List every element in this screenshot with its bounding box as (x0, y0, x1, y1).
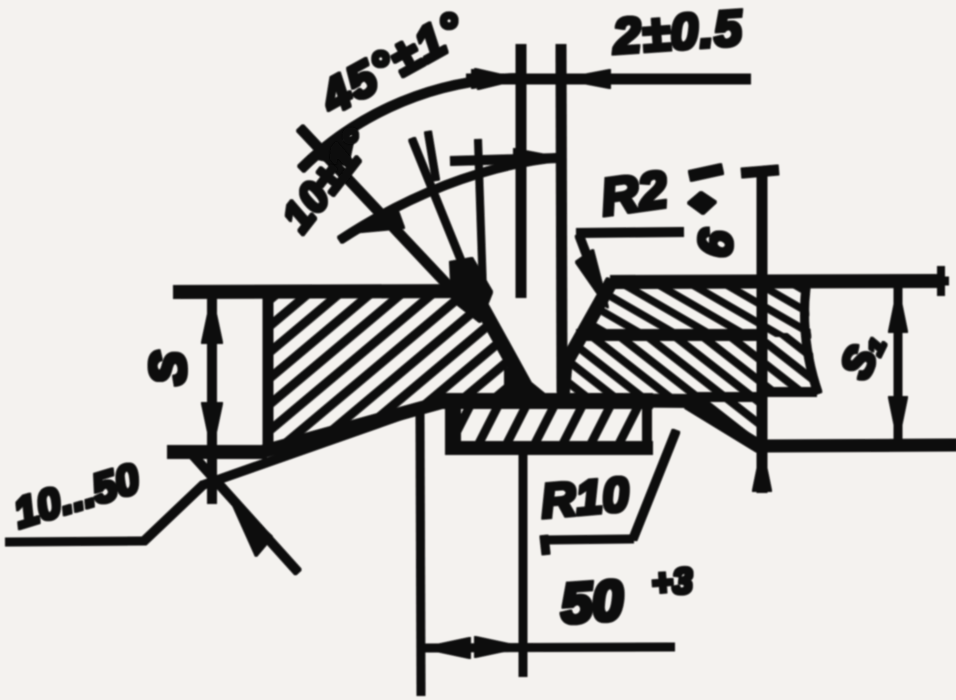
R2 leader arrowhead (576, 250, 608, 308)
svg-text:10...50: 10...50 (8, 454, 145, 537)
svg-text:+3: +3 (650, 560, 694, 604)
ext line x=561 for gap (561, 45, 562, 391)
S1 bottom arrow (889, 397, 907, 441)
R2 underline (577, 232, 683, 233)
50 left arrow (423, 638, 470, 658)
right plate hatch bottom short line (762, 388, 816, 396)
ext line x=421 bottom (420, 410, 421, 695)
svg-text:9: 9 (687, 225, 743, 258)
left plate hatch (261, 289, 542, 452)
left plate bottom slant to root (261, 400, 450, 452)
left plate bottom edge (168, 446, 266, 458)
S1 top ext tick (920, 278, 948, 285)
S1 top arrow (889, 288, 907, 332)
10deg arc (340, 157, 562, 240)
right plate bottom near root (563, 400, 693, 401)
right plate hatch lower band (563, 334, 816, 443)
right plate hatch break curve (805, 287, 819, 393)
arrow left into x=561 (563, 70, 610, 88)
right plate top edge (611, 281, 943, 282)
dim line 50+3 (424, 647, 674, 648)
backing strip hatch (452, 402, 648, 446)
10...50 leader horizontal (6, 541, 145, 542)
45deg leg segment (300, 128, 458, 296)
svg-text:S₁: S₁ (830, 325, 894, 387)
45deg arc (301, 78, 521, 169)
ext line x=521 for gap (517, 45, 526, 297)
9 ext top tick (742, 170, 778, 173)
root level line above slant (690, 393, 757, 401)
9 ext line x=762 (758, 172, 767, 492)
50 right arrow (475, 637, 522, 657)
10 arc left arrowhead (350, 206, 404, 233)
R2 tolerance diamond (688, 192, 716, 214)
left root corner fill (505, 368, 546, 400)
R10 underline (543, 539, 633, 540)
right plate hatch (581, 283, 810, 336)
ext line x=523 bottom (520, 453, 527, 676)
bevel corner blob (450, 258, 492, 322)
R10 leader (633, 431, 676, 539)
svg-text:S: S (140, 351, 196, 384)
backing strip left edge (446, 401, 460, 447)
10...50 long slant to root (203, 400, 445, 485)
crossing arrow line (190, 452, 298, 572)
S1 dim line x=898 (895, 285, 902, 443)
backing strip bottom edge (446, 442, 652, 454)
crossing arrowhead (230, 498, 272, 556)
45 arc left arrowhead (308, 137, 354, 165)
right plate internal split line (577, 330, 762, 340)
10 arc right arrowhead with shaft (451, 158, 560, 161)
svg-text:2±0.5: 2±0.5 (610, 0, 745, 65)
svg-text:R10: R10 (539, 468, 632, 528)
45 arc right arrowhead (475, 69, 519, 89)
R2 tolerance dash (690, 169, 722, 176)
dim line 2+-0.5 (467, 75, 750, 84)
left plate top edge (174, 291, 480, 292)
arrow right into x=521 (472, 70, 519, 88)
left plate left hatch boundary (264, 293, 273, 449)
root bottom line (438, 394, 652, 408)
S bottom arrow (202, 403, 222, 450)
ext line x=481 (angle leg) (478, 140, 483, 292)
left groove face extension above plate (412, 139, 473, 290)
backing strip right edge (643, 401, 651, 447)
R2 leader arrow (579, 235, 600, 290)
9 bottom arrow pointing up (753, 447, 771, 491)
10...50 leader bend (143, 484, 204, 542)
short stub above 10-arc (428, 132, 436, 180)
right plate bottom right part (758, 445, 956, 446)
right plate step slant (688, 403, 760, 447)
svg-text:50: 50 (559, 568, 626, 635)
S top arrow (202, 296, 222, 343)
right plate bevel (563, 281, 612, 396)
svg-text:R2: R2 (597, 161, 671, 228)
S dim line (208, 286, 216, 503)
left groove face (472, 289, 542, 400)
